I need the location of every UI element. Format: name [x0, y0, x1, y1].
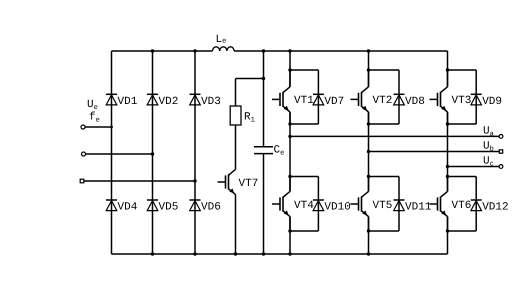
- transistor VT1: [272, 70, 290, 124]
- input terminal phase 1: [81, 125, 85, 129]
- junction bottom rail / VT7 leg: [234, 252, 237, 255]
- svg-text:fe: fe: [89, 112, 100, 125]
- diode VD8: [394, 94, 405, 105]
- wire inverter leg bottom segment: [447, 217, 449, 254]
- junction bottom rail / inverter leg: [288, 252, 291, 255]
- wire output Ub: [369, 151, 500, 153]
- wire upper diode branch: [448, 70, 477, 124]
- transistor VT5: [351, 177, 369, 232]
- junction R branch / Ce leg: [262, 77, 265, 80]
- node output Ub junction: [367, 150, 370, 153]
- junction lower branch top: [288, 175, 291, 178]
- junction upper branch bottom: [446, 122, 449, 125]
- junction top rail / leg C: [193, 49, 196, 52]
- junction top rail / inverter leg: [288, 49, 291, 52]
- junction phase2 / leg B: [151, 152, 154, 155]
- svg-text:VT4: VT4: [294, 200, 314, 212]
- wire input phase 2: [86, 153, 153, 155]
- bottom DC rail: [112, 253, 448, 255]
- transistor VT4: [272, 177, 290, 232]
- svg-text:VD1: VD1: [118, 96, 138, 108]
- wire upper diode branch: [290, 70, 318, 124]
- wire inverter leg bottom segment: [368, 217, 370, 254]
- wire inverter leg bottom segment: [289, 217, 291, 254]
- transistor VT7: [218, 169, 236, 254]
- resistor R1: [230, 106, 241, 125]
- svg-text:VT5: VT5: [373, 200, 393, 212]
- node output Uc junction: [446, 165, 449, 168]
- output terminal Uc: [499, 165, 503, 169]
- wire R branch horizontal: [236, 78, 264, 80]
- diode VD3: [190, 94, 201, 105]
- svg-text:VD12: VD12: [482, 202, 508, 214]
- transistor VT6: [430, 177, 448, 232]
- svg-text:VD6: VD6: [201, 202, 221, 214]
- junction bottom rail / inverter leg: [367, 252, 370, 255]
- transistor VT2: [351, 70, 369, 124]
- inductor Le: [213, 47, 235, 51]
- diode VD5: [147, 200, 158, 211]
- junction lower branch top: [367, 175, 370, 178]
- wire inverter leg middle segment: [368, 112, 370, 191]
- junction bottom rail / leg C: [193, 252, 196, 255]
- diode VD10: [313, 200, 324, 211]
- diode VD12: [471, 200, 482, 211]
- svg-text:VT1: VT1: [294, 95, 314, 107]
- svg-text:Ua: Ua: [483, 125, 494, 138]
- junction top rail / leg B: [151, 49, 154, 52]
- svg-text:Uc: Uc: [483, 156, 494, 169]
- diode VD1: [106, 94, 117, 105]
- node output Ua junction: [288, 135, 291, 138]
- svg-text:VT7: VT7: [239, 178, 259, 190]
- svg-text:VD7: VD7: [324, 96, 344, 108]
- wire R to VT7 collector: [235, 125, 237, 169]
- junction phase3 / leg C: [193, 179, 196, 182]
- svg-text:Ub: Ub: [483, 141, 494, 154]
- junction lower branch bottom: [367, 229, 370, 232]
- transistor VT3: [430, 70, 448, 124]
- svg-text:VD5: VD5: [159, 202, 179, 214]
- svg-text:Ue: Ue: [87, 99, 98, 112]
- wire rectifier leg vertical: [194, 51, 196, 254]
- input terminal phase 3: [80, 179, 84, 183]
- wire Ce leg lower: [263, 154, 265, 254]
- junction lower branch bottom: [288, 229, 291, 232]
- diode VD4: [106, 200, 117, 211]
- diode VD7: [313, 94, 324, 105]
- junction lower branch bottom: [446, 229, 449, 232]
- diode VD6: [190, 200, 201, 211]
- svg-text:VD11: VD11: [405, 202, 432, 214]
- junction upper branch bottom: [367, 122, 370, 125]
- wire output Uc: [448, 166, 500, 168]
- wire upper diode branch: [369, 70, 400, 124]
- junction bottom rail / leg B: [151, 252, 154, 255]
- junction phase1 / leg A: [110, 126, 113, 129]
- wire lower diode branch: [290, 177, 318, 232]
- diode VD2: [147, 94, 158, 105]
- top DC rail (right of inductor): [234, 50, 447, 52]
- svg-text:VD3: VD3: [201, 96, 221, 108]
- output terminal Ua: [499, 135, 503, 139]
- svg-text:VT2: VT2: [373, 95, 393, 107]
- wire output Ua: [290, 135, 500, 137]
- junction upper branch top: [446, 68, 449, 71]
- wire input phase 1: [85, 126, 112, 128]
- wire R branch vertical top: [235, 79, 237, 107]
- junction upper branch top: [367, 68, 370, 71]
- output terminal Ub: [499, 150, 502, 153]
- svg-text:Le: Le: [216, 34, 227, 46]
- wire inverter leg top segment: [289, 51, 291, 87]
- top DC rail (left of inductor): [112, 50, 213, 52]
- junction lower branch top: [446, 175, 449, 178]
- junction top rail / Ce leg: [262, 49, 265, 52]
- wire inverter leg middle segment: [289, 112, 291, 191]
- svg-text:Ce: Ce: [274, 145, 285, 158]
- junction bottom rail / Ce leg: [262, 252, 265, 255]
- wire rectifier leg vertical: [111, 51, 113, 254]
- diode VD9: [471, 94, 482, 105]
- svg-text:VT6: VT6: [452, 200, 472, 212]
- input terminal phase 2: [82, 152, 86, 156]
- svg-text:VD8: VD8: [405, 96, 425, 108]
- svg-text:VD9: VD9: [482, 96, 502, 108]
- svg-text:VD4: VD4: [118, 202, 138, 214]
- wire rectifier leg vertical: [152, 51, 154, 254]
- diode VD11: [394, 200, 405, 211]
- svg-text:VT3: VT3: [452, 95, 472, 107]
- wire inverter leg top segment: [447, 51, 449, 87]
- junction upper branch top: [288, 68, 291, 71]
- capacitor Ce: [254, 147, 273, 154]
- wire lower diode branch: [448, 177, 477, 232]
- svg-text:VD2: VD2: [159, 96, 179, 108]
- svg-text:R1: R1: [244, 112, 255, 125]
- junction top rail / inverter leg: [367, 49, 370, 52]
- wire inverter leg top segment: [368, 51, 370, 87]
- svg-text:VD10: VD10: [324, 202, 350, 214]
- wire lower diode branch: [369, 177, 400, 232]
- wire Ce leg upper: [263, 51, 265, 146]
- wire inverter leg middle segment: [447, 112, 449, 191]
- wire input phase 3: [84, 180, 195, 182]
- junction upper branch bottom: [288, 122, 291, 125]
